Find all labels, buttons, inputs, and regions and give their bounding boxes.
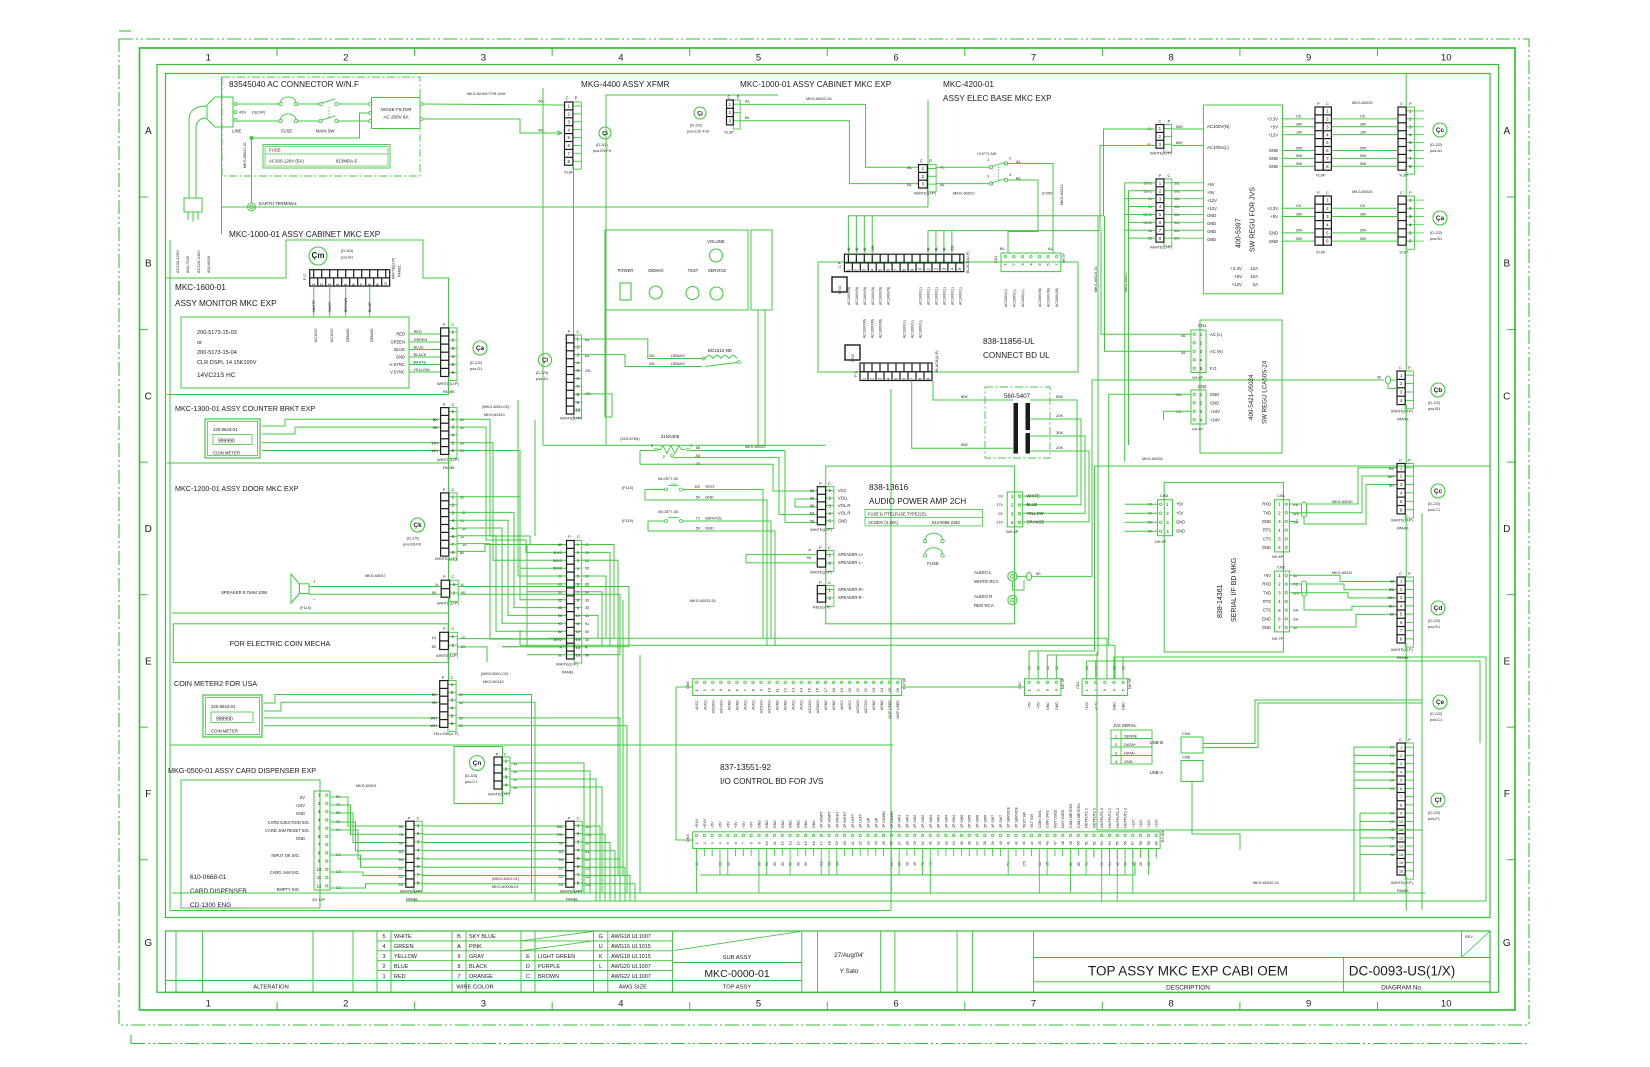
svg-text:SERVICE: SERVICE [708,268,727,273]
svg-text:A: A [808,547,811,552]
section divider [170,744,893,746]
svg-text:21: 21 [851,841,855,845]
svg-text:AC 250V 6A: AC 250V 6A [383,115,409,120]
board 838-14361 SERIAL I/F BD MKG [1164,482,1283,652]
svg-text:(D-2/2): (D-2/2) [1430,230,1443,235]
svg-text:88: 88 [810,496,814,501]
svg-text:25: 25 [1390,820,1394,824]
svg-text:BL: BL [1000,246,1006,251]
svg-text:FUSE (LITTELFUSE TYPE215): FUSE (LITTELFUSE TYPE215) [868,512,926,517]
wire L1 [237,103,279,105]
transformer 560-5407 box [985,387,1050,458]
svg-text:42: 42 [1014,841,1018,845]
earth bus wire [222,206,928,208]
svg-text:(D-2/2): (D-2/2) [1428,810,1441,815]
svg-text:P: P [819,580,822,585]
svg-text:3: 3 [481,53,486,64]
svg-text:D: D [526,964,530,970]
svg-text:F: F [145,789,151,800]
svg-text:WHITE(U-P): WHITE(U-P) [1391,409,1414,414]
svg-text:AVCC: AVCC [840,700,844,710]
svg-text:WH: WH [432,441,439,446]
svg-text:USB-A: USB-A [1150,770,1163,775]
svg-text:90: 90 [585,654,589,658]
svg-text:+12V: +12V [1232,282,1242,287]
svg-text:P: P [443,322,446,327]
wires CN3 pins 11-14 to BL bus [927,231,929,255]
junction [250,136,253,139]
svg-text:CK: CK [1360,204,1366,208]
AC inlet pins [234,103,237,106]
svg-text:6: 6 [893,999,898,1010]
svg-text:A: A [145,126,152,137]
svg-text:MKG-60030: MKG-60030 [1332,500,1352,504]
svg-text:C: C [1503,391,1510,402]
wire bus [542,88,544,445]
svg-text:AC100V: AC100V [314,328,318,342]
svg-text:AC100V: AC100V [330,328,334,342]
power switch [620,283,631,300]
svg-text:49-0577-00: 49-0577-00 [658,476,679,481]
svg-text:DEMAG: DEMAG [671,362,685,366]
svg-text:19: 19 [835,841,839,845]
svg-text:C: C [1399,458,1402,463]
svg-text:2: 2 [382,964,385,970]
svg-text:AC100V(L): AC100V(L) [1021,289,1025,307]
svg-text:A: A [1503,126,1510,137]
svg-text:50K: 50K [1056,394,1063,399]
wires serial CN1 to panel [1289,503,1301,505]
svg-text:50K: 50K [1296,229,1303,233]
bus BL [928,230,1100,232]
svg-text:10A: 10A [1250,274,1258,279]
svg-text:A/D2CH: A/D2CH [808,700,812,714]
wires regu to VL8P [1283,118,1316,120]
svg-text:AC100V(N): AC100V(N) [879,287,883,305]
svg-text:MKC-4200-01: MKC-4200-01 [943,80,994,89]
svg-text:13: 13 [576,637,581,642]
svg-text:NOISE FILTER: NOISE FILTER [380,107,412,112]
svg-text:35: 35 [585,606,589,610]
svg-text:CARD JAM RESET SIG.: CARD JAM RESET SIG. [265,828,310,833]
svg-text:70: 70 [921,862,925,866]
svg-text:GND: GND [773,820,777,828]
svg-text:C: C [452,402,455,407]
svg-text:TEST SW: TEST SW [1022,811,1026,828]
svg-text:E: E [526,954,530,960]
svg-text:C P: C P [838,261,842,268]
svg-text:33: 33 [944,841,948,845]
svg-text:PANEL: PANEL [1397,417,1410,422]
svg-text:35: 35 [1046,862,1050,866]
svg-text:1P SW5: 1P SW5 [960,815,964,828]
wire volume loop [795,499,817,507]
svg-text:WH: WH [1388,475,1395,479]
svg-text:WH: WH [432,448,439,453]
svg-text:49-0577-00: 49-0577-00 [658,509,679,514]
svg-text:BLUE: BLUE [394,347,405,352]
wires lca CN1 [1101,231,1191,335]
svg-text:P: P [1168,119,1171,124]
off-page ref Cn [470,756,485,771]
svg-text:Çi: Çi [602,131,608,137]
svg-text:B: B [1503,259,1510,270]
volume pot [710,249,723,262]
svg-text:MKG-60047: MKG-60047 [365,574,385,578]
svg-text:G: G [144,938,152,949]
svg-text:+12V: +12V [1147,819,1151,828]
svg-text:17V: 17V [996,502,1003,507]
svg-text:20L: 20L [649,362,655,366]
svg-text:GND: GND [757,820,761,828]
svg-text:P: P [1317,101,1320,106]
svg-text:(D-2/2): (D-2/2) [470,360,483,365]
svg-text:17: 17 [823,687,828,692]
svg-text:70L: 70L [557,832,564,837]
wires CN7 up [1028,651,1030,679]
svg-text:31: 31 [929,841,933,845]
svg-text:1P START: 1P START [820,810,824,828]
connector CN7 4pin [1025,679,1061,696]
svg-text:AWG16 UL1015: AWG16 UL1015 [611,944,651,950]
svg-text:DEMAG: DEMAG [370,328,374,342]
svg-text:85: 85 [585,582,589,586]
svg-text:AC100V(N): AC100V(N) [847,287,851,305]
earth terminal [248,203,256,211]
svg-text:PANEL: PANEL [562,670,575,675]
svg-text:36: 36 [968,841,972,845]
svg-text:54: 54 [1108,841,1112,845]
svg-text:P: P [1409,101,1412,106]
svg-text:P: P [819,545,822,550]
svg-text:14: 14 [949,267,954,272]
svg-text:50: 50 [585,567,589,571]
svg-text:27/Aug/04': 27/Aug/04' [834,952,863,959]
svg-text:VL8P: VL8P [564,170,574,175]
svg-text:(MKG-6001-02): (MKG-6001-02) [482,404,510,409]
wire to earth [251,138,253,203]
monitor CRT box [181,317,409,388]
svg-text:WHITE(U-P): WHITE(U-P) [810,570,833,575]
svg-text:40: 40 [1390,762,1394,766]
svg-text:AL: AL [585,353,591,358]
svg-text:EMPTY SIG.: EMPTY SIG. [277,887,300,892]
svg-text:VOL.R: VOL.R [838,503,850,508]
svg-text:20: 20 [1390,754,1394,758]
wires coin meter [262,419,441,426]
svg-text:GREEN: GREEN [390,340,405,345]
svg-text:pos.E6-F6: pos.E6-F6 [403,542,421,547]
svg-text:NH 6P: NH 6P [1272,555,1284,559]
svg-text:20L: 20L [950,245,954,251]
svg-text:813MDA-5: 813MDA-5 [336,159,358,164]
control panel box [605,230,748,310]
svg-text:MKG-60106 FOR USA: MKG-60106 FOR USA [467,92,506,96]
harness wire right [1096,652,1098,830]
svg-text:RE: RE [1389,588,1395,592]
svg-text:17V: 17V [996,519,1003,524]
svg-text:30K: 30K [1360,212,1367,216]
panel trunk through connectors [1405,74,1407,108]
svg-text:50K: 50K [961,442,968,447]
svg-text:+12V: +12V [1155,819,1159,828]
svg-text:MKC-1600-01: MKC-1600-01 [175,283,226,292]
svg-text:AWG SIZE: AWG SIZE [619,985,647,991]
amp fuse box [865,509,983,526]
svg-text:BLUE: BLUE [394,964,409,970]
svg-text:SPEAKER L−: SPEAKER L− [838,560,864,565]
svg-text:GND: GND [1207,237,1216,242]
svg-text:1: 1 [206,53,211,64]
svg-text:14: 14 [576,645,581,650]
svg-text:NOT USED: NOT USED [1053,809,1057,828]
svg-text:+12V: +12V [1268,132,1278,137]
off-page ref Cm [309,247,327,265]
svg-text:80L: 80L [538,128,545,133]
svg-text:+5V: +5V [711,821,715,828]
svg-text:+5V: +5V [734,821,738,828]
svg-text:DESCRIPTION: DESCRIPTION [1166,985,1210,992]
svg-text:3: 3 [711,842,715,844]
test button [686,287,699,300]
svg-text:CTS: CTS [1263,608,1271,613]
wires CN3 serial left [1125,503,1158,505]
svg-text:C5: C5 [1022,861,1026,866]
svg-text:48: 48 [1061,841,1065,845]
svg-text:AVCC: AVCC [743,700,747,710]
svg-text:WHITE(U-P): WHITE(U-P) [1150,245,1173,250]
wires card harness [422,825,566,827]
wire monitor panel [448,377,450,395]
svg-text:A/D6CH: A/D6CH [816,700,820,714]
svg-text:C: C [577,534,580,539]
svg-text:GND: GND [1207,213,1216,218]
svg-text:GND: GND [1124,759,1133,764]
svg-text:VH7P: VH7P [1062,253,1066,263]
svg-text:38: 38 [983,841,987,845]
svg-text:837-13551-92: 837-13551-92 [720,763,771,772]
wire BL [741,121,919,184]
svg-text:GND: GND [1207,229,1216,234]
svg-text:CD-1300 ENG: CD-1300 ENG [190,902,231,909]
svg-text:15: 15 [957,267,962,272]
svg-text:CN1: CN1 [1277,493,1286,498]
svg-text:4: 4 [382,944,385,950]
wires lca CN2 [1109,393,1191,395]
svg-text:220-5643-01: 220-5643-01 [213,427,238,432]
svg-text:80: 80 [558,543,562,547]
svg-text:2: 2 [343,53,348,64]
svg-text:58: 58 [810,519,814,524]
svg-text:BLUE: BLUE [1027,502,1038,507]
fuse F2 [279,119,282,122]
svg-text:Y Sato: Y Sato [840,968,859,975]
svg-text:OUTPUT1-2: OUTPUT1-2 [1100,808,1104,828]
svg-text:10K: 10K [1296,131,1303,135]
svg-text:C: C [451,675,454,680]
svg-text:S2: S2 [398,874,403,879]
svg-text:91: 91 [1085,862,1089,866]
wires CN3 pins 1-4 to AL bus [847,216,849,255]
svg-text:WHITE(U-P): WHITE(U-P) [392,257,396,279]
svg-text:12: 12 [783,687,788,692]
svg-text:16: 16 [1399,868,1404,873]
svg-text:S3: S3 [398,882,403,887]
svg-text:WHITE(U-P): WHITE(U-P) [1150,151,1173,156]
svg-text:29: 29 [913,841,917,845]
svg-text:93: 93 [559,849,563,854]
svg-text:AC100V(N): AC100V(N) [1207,124,1230,129]
svg-text:+3.3V: +3.3V [1230,266,1242,271]
svg-text:4: 4 [718,842,722,844]
svg-text:7: 7 [742,842,746,844]
svg-text:58: 58 [696,446,700,450]
svg-text:SW REGU FOR JVS: SW REGU FOR JVS [1250,187,1257,252]
svg-text:K: K [599,954,603,960]
svg-text:MKC-1000-01 ASSY CABINET MKC E: MKC-1000-01 ASSY CABINET MKC EXP [740,80,892,89]
svg-text:20K: 20K [1056,413,1063,418]
svg-text:50K: 50K [1360,229,1367,233]
svg-text:+5V: +5V [718,821,722,828]
svg-text:P: P [929,159,932,164]
svg-text:AC100-120V: AC100-120V [175,250,180,273]
svg-text:+12V: +12V [1139,819,1143,828]
svg-text:610-0668-01: 610-0668-01 [190,874,227,881]
svg-text:41: 41 [1007,841,1011,845]
svg-text:TOP ASSY: TOP ASSY [723,985,752,991]
svg-text:93: 93 [1100,862,1104,866]
svg-text:1P SW7: 1P SW7 [991,815,995,828]
svg-text:G: G [1503,938,1511,949]
svg-text:WH: WH [431,723,438,728]
svg-text:10: 10 [1390,845,1394,849]
svg-text:P: P [1408,365,1411,370]
svg-text:MKG-4400 ASSY XFMR: MKG-4400 ASSY XFMR [581,80,670,89]
svg-text:AGND: AGND [872,700,876,711]
svg-text:+12V: +12V [1207,198,1217,203]
speaker [291,574,299,603]
svg-text:WHITE: WHITE [1027,494,1040,499]
svg-text:400-5397: 400-5397 [1236,218,1243,248]
card dispenser box [181,780,320,908]
svg-text:SPEAKER R+: SPEAKER R+ [838,587,864,592]
svg-text:WHITE(U-P): WHITE(U-P) [435,556,458,561]
svg-text:9: 9 [1306,999,1311,1010]
svg-text:(D-3/2): (D-3/2) [596,142,609,147]
svg-text:CN6: CN6 [686,681,690,689]
bus AC right [1097,216,1099,651]
svg-text:BLACK: BLACK [469,964,487,970]
IO board bracket [676,687,693,840]
svg-text:16: 16 [812,841,816,845]
svg-text:+EXV: +EXV [695,818,699,828]
svg-text:CARD JAM SIG.: CARD JAM SIG. [270,870,300,875]
svg-text:PANEL: PANEL [1397,526,1410,531]
svg-text:VOLUME: VOLUME [707,239,725,244]
svg-text:BK: BK [433,417,439,422]
cabinet bottom boundary [170,910,891,912]
svg-text:2P SERVICE: 2P SERVICE [1014,806,1018,828]
svg-text:AC100V(M): AC100V(M) [863,319,867,338]
svg-text:GND: GND [1055,702,1059,710]
svg-text:CN3: CN3 [686,834,690,842]
svg-text:2: 2 [343,999,348,1010]
svg-text:10X2: 10X2 [553,638,562,642]
bus wire y645 [520,645,1115,679]
cabinet sub-box [286,240,449,328]
svg-text:GND: GND [812,820,816,828]
svg-text:WHITE(U-P): WHITE(U-P) [1391,518,1414,523]
svg-text:YELLOW: YELLOW [414,367,431,372]
svg-text:pos.E9-F9: pos.E9-F9 [593,148,611,153]
svg-text:AC100V(M): AC100V(M) [1038,288,1042,307]
svg-text:+5V: +5V [1234,274,1242,279]
svg-text:26: 26 [890,841,894,845]
svg-text:15: 15 [576,653,581,658]
svg-text:71: 71 [696,516,700,521]
svg-text:12: 12 [317,883,322,888]
svg-text:30K: 30K [1296,212,1303,216]
svg-text:B: B [457,934,461,940]
wires meter2 panel [457,695,531,894]
svg-text:OUTPUT1-3: OUTPUT1-3 [1116,808,1120,828]
svg-text:E: E [145,656,152,667]
svg-text:SH: SH [1389,484,1395,488]
svg-text:91: 91 [558,622,562,626]
svg-text:55: 55 [1116,841,1120,845]
svg-text:220-5643-01: 220-5643-01 [211,704,236,709]
svg-text:AC100V(N): AC100V(N) [855,287,859,305]
svg-text:CN2: CN2 [850,353,855,362]
svg-text:MKG-60110: MKG-60110 [484,412,506,417]
off-page ref Ca [473,341,487,355]
svg-text:WHITE(U-P): WHITE(U-P) [556,662,579,667]
border frame grid band [157,65,1499,993]
svg-text:10: 10 [317,867,322,872]
svg-text:8L: 8L [942,247,946,251]
svg-text:AGND: AGND [727,700,731,711]
svg-text:PANEL: PANEL [398,265,402,277]
svg-text:AC220-240V: AC220-240V [196,250,201,273]
svg-text:RE: RE [1389,467,1395,471]
svg-text:MAIN SW: MAIN SW [316,129,334,134]
svg-text:50: 50 [585,630,589,634]
svg-text:50: 50 [796,862,800,866]
svg-text:(MKG-6001-02): (MKG-6001-02) [481,671,509,676]
svg-text:S2: S2 [828,862,832,866]
CN3 tag [832,277,847,292]
svg-text:20: 20 [843,841,847,845]
svg-text:30K: 30K [1296,123,1303,127]
svg-text:85: 85 [1077,862,1081,866]
svg-text:GND: GND [1207,221,1216,226]
svg-text:(D-2/2): (D-2/2) [407,536,420,541]
svg-text:FOR ELECTRIC COIN MECHA: FOR ELECTRIC COIN MECHA [230,639,331,648]
svg-text:+5V: +5V [1037,701,1041,708]
svg-text:C: C [145,391,152,402]
connector CN2 strip 9pin [860,363,932,381]
svg-text:MKG-60032-01: MKG-60032-01 [1253,881,1279,885]
svg-text:30L: 30L [1174,181,1180,185]
svg-text:1P LEFT: 1P LEFT [851,813,855,828]
svg-text:3: 3 [382,954,385,960]
svg-text:+5V: +5V [1207,182,1215,187]
svg-text:C: C [452,487,455,492]
svg-text:31NA305: 31NA305 [661,434,680,439]
output stub labels [1085,849,1087,859]
svg-text:(D-2/2): (D-2/2) [1430,711,1443,716]
svg-text:12: 12 [1399,835,1404,840]
